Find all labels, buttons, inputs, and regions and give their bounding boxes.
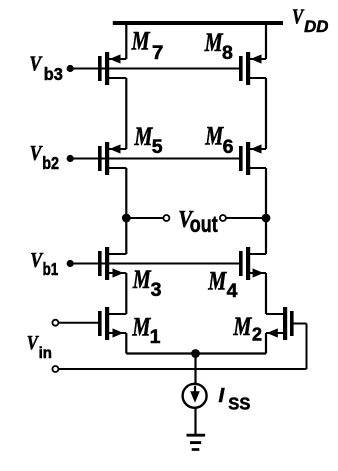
- svg-text:2: 2: [252, 325, 262, 345]
- svg-text:5: 5: [152, 136, 163, 158]
- wire M1 source down to tail: [125, 333, 127, 354]
- terminal Vin+ (open circle): [52, 320, 58, 326]
- transistor M1 (NMOS): [98, 307, 126, 340]
- svg-text:V: V: [30, 143, 44, 166]
- svg-text:M: M: [134, 122, 154, 151]
- transistor M3 label: [132, 266, 162, 301]
- wire Vb2 node to M5 and M6 gates: [67, 155, 239, 162]
- wire Vout terminal to right output: [226, 217, 266, 219]
- transistor M2 label: [233, 312, 262, 344]
- wire tail rail: [126, 352, 266, 354]
- node junction left output: [122, 214, 131, 223]
- transistor M7 (PMOS): [98, 52, 126, 85]
- VDD supply rail: [113, 21, 283, 25]
- wire left output to Vout terminal: [126, 217, 163, 219]
- wire M4 source to M2 drain: [265, 273, 267, 314]
- node junction right output: [262, 214, 271, 223]
- transistor M4 label: [207, 267, 237, 302]
- svg-text:M: M: [207, 267, 227, 296]
- wire Vb3 node to M7 and M8 gates: [67, 65, 239, 72]
- transistor M5 (PMOS): [98, 142, 126, 175]
- transistor M1 label: [132, 313, 161, 348]
- svg-text:M: M: [132, 313, 152, 342]
- svg-text:M: M: [233, 312, 253, 341]
- net Vb3 label: [29, 53, 62, 84]
- svg-text:7: 7: [152, 42, 163, 63]
- svg-text:8: 8: [222, 42, 233, 64]
- transistor M6 (PMOS): [239, 142, 266, 175]
- wire tail to current source: [194, 354, 196, 386]
- svg-text:b2: b2: [42, 155, 59, 173]
- net VDD label: [292, 6, 328, 36]
- ground symbol: [187, 435, 206, 449]
- svg-text:out: out: [190, 212, 218, 238]
- wire current source to ground: [194, 408, 196, 435]
- terminal Vout right (open circle): [220, 215, 226, 221]
- node tail junction: [191, 349, 200, 358]
- svg-text:b3: b3: [44, 64, 63, 83]
- transistor M7 label: [131, 27, 164, 64]
- svg-text:M: M: [204, 122, 224, 151]
- wire Vin- terminal to M2 gate: [59, 324, 307, 370]
- svg-text:b1: b1: [43, 260, 59, 279]
- wire M8 drain to VDD rail: [265, 23, 267, 59]
- svg-text:in: in: [39, 345, 52, 362]
- wire M7 source to M5 source: [125, 78, 127, 149]
- svg-text:SS: SS: [228, 393, 250, 414]
- transistor M8 (PMOS): [239, 52, 266, 85]
- svg-text:M: M: [204, 29, 224, 58]
- wire Vin+ terminal to M1 gate: [59, 322, 98, 324]
- svg-text:6: 6: [223, 136, 234, 158]
- terminal Vin- (open circle): [52, 366, 58, 372]
- wire M6 drain to M4 drain (right output branch): [265, 168, 267, 254]
- svg-text:DD: DD: [304, 17, 328, 36]
- net Vin label: [27, 332, 52, 363]
- svg-text:3: 3: [151, 279, 162, 301]
- wire M7 drain to VDD rail: [125, 23, 127, 59]
- svg-text:V: V: [29, 53, 43, 76]
- net Vb1 label: [30, 250, 58, 280]
- transistor M4 (NMOS): [239, 247, 266, 280]
- terminal Vout left (open circle): [163, 215, 169, 221]
- svg-text:M: M: [131, 27, 151, 56]
- transistor M2 (NMOS, mirrored): [266, 307, 294, 340]
- net Vb2 label: [30, 143, 60, 174]
- transistor M5 label: [134, 122, 163, 158]
- transistor M8 label: [204, 29, 233, 64]
- wire M3 source to M1 drain: [125, 273, 127, 314]
- net Vout label: [178, 205, 218, 237]
- wire M5 drain to M3 drain (left output branch): [125, 168, 127, 254]
- transistor M6 label: [204, 122, 233, 158]
- svg-text:1: 1: [150, 326, 161, 348]
- current source ISS label: [219, 384, 251, 414]
- wire Vb1 node to M3 and M4 gates: [67, 260, 239, 267]
- current source ISS: [183, 384, 207, 408]
- wire M2 source down to tail: [265, 333, 267, 354]
- transistor M3 (NMOS): [98, 247, 126, 280]
- svg-text:4: 4: [227, 280, 238, 302]
- svg-text:M: M: [132, 266, 152, 295]
- wire M8 source to M6 source: [265, 78, 267, 149]
- svg-text:V: V: [292, 6, 304, 29]
